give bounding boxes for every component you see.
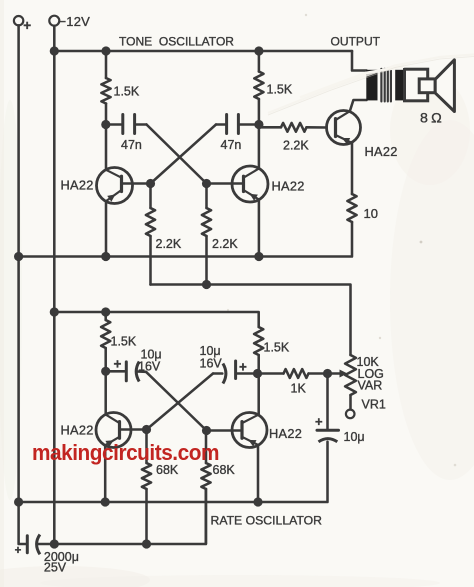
svg-text:VAR: VAR <box>358 379 383 393</box>
resistor R11 1K <box>258 369 328 378</box>
transformer T1 winding <box>366 69 404 102</box>
label C5 10u <box>344 430 365 444</box>
label C5 plus <box>315 414 323 429</box>
wire Q5 collector <box>257 374 260 416</box>
capacitor C3 10u <box>106 362 146 382</box>
wire Q5 emitter <box>257 445 260 502</box>
svg-text:47n: 47n <box>221 138 242 152</box>
junction Q1 emitter <box>101 252 110 261</box>
label R4 2.2K <box>212 237 238 251</box>
resistor R1 1.5K <box>101 51 110 125</box>
svg-text:25V: 25V <box>44 561 67 575</box>
capacitor C4 10u <box>213 361 258 384</box>
wire tone base bias line <box>151 285 351 356</box>
label C3 10u 16V <box>138 348 162 374</box>
label R7 1.5K <box>111 335 137 349</box>
wire rate emitter rail <box>19 442 328 502</box>
label R10 68K <box>213 463 236 477</box>
junction R4 bottom <box>202 280 211 289</box>
junction Q2 base node <box>202 179 211 188</box>
label R1 1.5K <box>114 85 140 99</box>
speaker LS1 <box>405 60 455 112</box>
svg-text:VR1: VR1 <box>362 398 386 412</box>
junction Q2 emitter <box>254 252 263 261</box>
resistor R2 1.5K <box>254 51 263 125</box>
label C2 47n <box>221 138 242 152</box>
svg-text:16V: 16V <box>138 360 161 374</box>
junction R2 top <box>254 46 263 55</box>
transistor Q3 HA22 <box>327 111 361 145</box>
wire tone emitter rail <box>19 222 352 257</box>
potentiometer VR1 10K <box>345 285 356 410</box>
svg-text:10μ: 10μ <box>344 430 365 444</box>
wire bottom -12V line <box>54 489 206 544</box>
terminal TP1 positive supply <box>14 16 31 33</box>
svg-text:8 Ω: 8 Ω <box>420 111 443 127</box>
wire output drop <box>352 51 367 71</box>
svg-text:OUTPUT: OUTPUT <box>331 35 381 49</box>
wire cross-couple C4 to Q4 base <box>147 374 214 430</box>
svg-text:2.2K: 2.2K <box>156 237 182 251</box>
label VR1 10K <box>357 355 380 369</box>
svg-text:HA22: HA22 <box>269 426 302 441</box>
junction R1 top <box>101 46 110 55</box>
label Q1 HA22 <box>61 178 94 193</box>
svg-text:+: + <box>315 414 323 429</box>
label Q3 HA22 <box>365 144 398 159</box>
wire Q3 collector to transformer <box>350 100 367 111</box>
label R8 1.5K <box>264 341 290 355</box>
svg-text:TONE OSCILLATOR: TONE OSCILLATOR <box>119 35 234 49</box>
terminal VR1 bottom <box>346 410 355 419</box>
resistor R8 1.5K <box>254 327 263 374</box>
resistor R4 2.2K <box>202 187 211 285</box>
junction Q4 base node <box>142 425 151 434</box>
wire cross-couple C1 to Q2 base <box>147 125 207 184</box>
label R9 68K <box>156 463 179 477</box>
svg-text:1.5K: 1.5K <box>111 335 137 349</box>
transistor Q1 HA22 <box>97 168 133 204</box>
junction Q4 collector node <box>101 367 110 376</box>
junction Q1 collector node <box>101 120 110 129</box>
wire Q4 collector <box>104 371 107 414</box>
watermark makingcircuits.com <box>32 440 219 465</box>
wire cross-couple C3 to Q5 base <box>146 372 207 431</box>
svg-text:RATE OSCILLATOR: RATE OSCILLATOR <box>211 514 323 528</box>
label RATE OSCILLATOR <box>211 514 323 528</box>
capacitor C5 10u <box>317 374 339 442</box>
svg-text:1.5K: 1.5K <box>264 341 290 355</box>
junction wiper node <box>323 369 332 378</box>
svg-text:2.2K: 2.2K <box>283 139 309 153</box>
wire Q1 collector <box>105 125 108 170</box>
label VR1 LOG <box>358 367 384 381</box>
resistor R7 1.5K <box>101 312 110 371</box>
wire Q4 emitter <box>104 445 107 502</box>
label TONE OSCILLATOR <box>119 35 234 49</box>
svg-text:+: + <box>23 18 31 33</box>
label VR1 <box>362 398 386 412</box>
label -12V <box>59 14 91 29</box>
junction top rail at -12V <box>50 46 59 55</box>
svg-text:+: + <box>15 545 22 557</box>
transistor Q2 HA22 <box>232 166 268 202</box>
wire positive rail <box>19 25 26 544</box>
transistor Q5 HA22 <box>232 413 267 448</box>
label Q4 HA22 <box>61 423 94 438</box>
junction rate rail at -12V <box>50 307 59 316</box>
svg-text:HA22: HA22 <box>365 144 398 159</box>
label VR1 VAR <box>358 379 383 393</box>
svg-text:16V: 16V <box>200 357 223 371</box>
capacitor C2 47n <box>216 115 259 134</box>
capacitor C1 47n <box>106 115 147 134</box>
label R6 2.2K <box>283 139 309 153</box>
junction C4 node <box>253 369 262 378</box>
svg-text:+: + <box>239 360 247 375</box>
junction Q5 emitter <box>253 497 262 506</box>
junction Q1 base node <box>146 179 155 188</box>
wire Q1 base lead <box>122 182 151 185</box>
label R3 2.2K <box>156 237 182 251</box>
junction emitter rail left <box>14 252 23 261</box>
junction -12V rail bottom <box>50 539 59 548</box>
junction Q5 base node <box>202 426 211 435</box>
label R11 1K <box>291 382 307 396</box>
wire Q4 base lead <box>120 428 147 431</box>
wire -12V rail <box>53 26 56 543</box>
svg-text:10: 10 <box>364 206 378 221</box>
svg-text:−12V: −12V <box>59 14 91 29</box>
svg-text:68K: 68K <box>156 463 179 477</box>
resistor R10 68K <box>201 435 210 544</box>
capacitor C6 2000u <box>27 535 54 555</box>
svg-text:HA22: HA22 <box>272 179 305 194</box>
svg-text:68K: 68K <box>213 463 236 477</box>
junction Q4 emitter <box>101 497 110 506</box>
label R2 1.5K <box>267 83 293 97</box>
label C3 plus <box>114 357 122 372</box>
svg-text:HA22: HA22 <box>61 178 94 193</box>
label OUTPUT <box>331 35 381 49</box>
label C1 47n <box>121 138 142 152</box>
wire Q2 base lead <box>207 182 244 185</box>
label Q2 HA22 <box>272 179 305 194</box>
wire top supply rail <box>54 50 352 53</box>
label LS1 8 ohm <box>420 111 443 127</box>
svg-text:1K: 1K <box>291 382 307 396</box>
label C6 2000u 25V <box>44 550 79 575</box>
label C6 plus <box>15 545 22 557</box>
wire Q1 emitter <box>105 201 108 256</box>
svg-text:1.5K: 1.5K <box>267 83 293 97</box>
svg-text:2.2K: 2.2K <box>212 237 238 251</box>
svg-text:HA22: HA22 <box>61 423 94 438</box>
label R5 10 <box>364 206 378 221</box>
wire cross-couple C2 to Q1 base <box>151 125 217 184</box>
svg-text:+: + <box>114 357 122 372</box>
wire Q2 collector <box>258 125 261 169</box>
wire Q3 emitter <box>351 142 354 194</box>
junction R7 top <box>101 307 110 316</box>
wire Q2 emitter <box>258 200 261 258</box>
svg-text:1.5K: 1.5K <box>114 85 140 99</box>
svg-text:makingcircuits.com: makingcircuits.com <box>32 440 219 465</box>
wire rate supply rail <box>54 312 258 327</box>
junction Q2 collector node <box>254 120 263 129</box>
resistor R9 68K <box>142 434 151 544</box>
resistor R3 2.2K <box>146 187 155 285</box>
label Q5 HA22 <box>269 426 302 441</box>
label C4 plus <box>239 360 247 375</box>
label C4 10u 16V <box>200 344 223 371</box>
transistor Q4 HA22 <box>96 413 131 448</box>
junction rate rail left <box>14 497 23 506</box>
svg-text:47n: 47n <box>121 138 142 152</box>
wire wiper arrow <box>328 370 348 378</box>
wire Q5 base lead <box>207 429 243 432</box>
resistor R6 2.2K <box>259 123 327 132</box>
resistor R5 10 <box>347 194 356 222</box>
terminal TP2 -12V supply <box>49 16 59 26</box>
junction R9 bottom <box>142 539 151 548</box>
